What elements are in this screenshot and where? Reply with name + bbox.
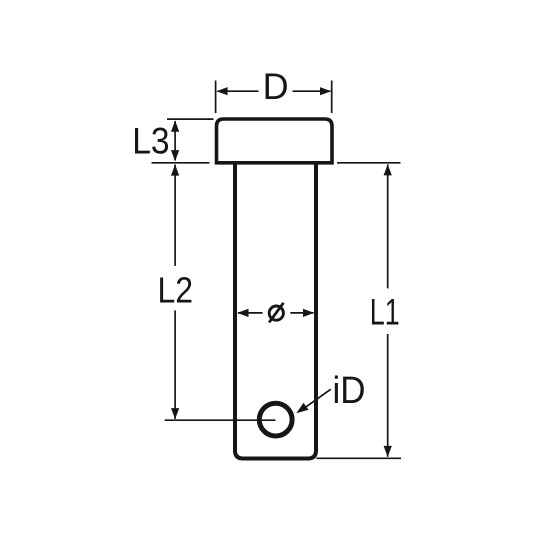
- dimension D extension lines: [215, 81, 217, 114]
- dimension L2 extension line to hole center: [165, 419, 276, 421]
- svg-text:iD: iD: [333, 370, 366, 412]
- dimension L2 line and arrows: [174, 165, 176, 266]
- hole diameter leader line and arrow: [300, 389, 331, 411]
- dimension L3 extension lines: [167, 118, 214, 120]
- svg-text:D: D: [263, 66, 289, 107]
- clevis pin shaft: [235, 163, 316, 459]
- dimension L1 extension lines: [337, 162, 401, 164]
- pin hole: [259, 403, 292, 436]
- dimension L1 line and arrows: [387, 164, 389, 288]
- shaft diameter dimension line and arrows: [238, 312, 263, 314]
- svg-text:L2: L2: [158, 269, 194, 310]
- svg-text:L1: L1: [370, 291, 400, 332]
- diameter symbol: [269, 306, 283, 320]
- svg-text:L3: L3: [132, 121, 169, 162]
- dimension L3 line and arrows: [174, 121, 176, 161]
- clevis pin head: [217, 119, 333, 163]
- dimension D line and arrows: [218, 90, 259, 92]
